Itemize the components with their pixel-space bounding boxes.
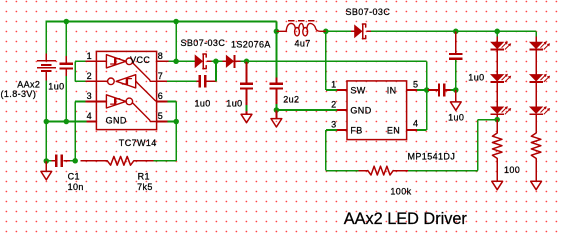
- svg-text:EN: EN: [387, 126, 400, 136]
- svg-text:2: 2: [331, 99, 336, 109]
- svg-text:8: 8: [158, 51, 163, 61]
- svg-text:(1.8-3V): (1.8-3V): [1, 89, 37, 99]
- svg-text:10n: 10n: [68, 182, 84, 192]
- svg-text:1u0: 1u0: [226, 98, 242, 108]
- svg-text:MP1541DJ: MP1541DJ: [408, 152, 456, 162]
- svg-text:SW: SW: [350, 85, 365, 95]
- svg-text:1u0: 1u0: [468, 72, 484, 82]
- svg-text:1u0: 1u0: [48, 82, 64, 92]
- svg-text:AAx2 LED Driver: AAx2 LED Driver: [344, 210, 468, 228]
- svg-text:FB: FB: [350, 126, 362, 136]
- svg-text:6: 6: [158, 91, 163, 101]
- svg-text:GND: GND: [106, 115, 127, 125]
- svg-text:7k5: 7k5: [137, 182, 153, 192]
- svg-text:1u0: 1u0: [448, 112, 464, 122]
- svg-text:IN: IN: [387, 85, 397, 95]
- svg-text:2u2: 2u2: [283, 94, 299, 104]
- svg-text:VCC: VCC: [130, 55, 150, 65]
- svg-text:SB07-03C: SB07-03C: [181, 38, 226, 48]
- svg-text:1u0: 1u0: [195, 98, 211, 108]
- svg-text:2: 2: [87, 71, 92, 81]
- svg-text:C1: C1: [68, 172, 80, 182]
- svg-text:4u7: 4u7: [295, 39, 311, 49]
- svg-text:1S2076A: 1S2076A: [231, 40, 271, 50]
- svg-text:TC7W14: TC7W14: [119, 138, 157, 148]
- svg-text:1: 1: [87, 51, 92, 61]
- svg-text:GND: GND: [350, 105, 371, 115]
- svg-text:1: 1: [331, 79, 336, 89]
- svg-text:4: 4: [87, 111, 92, 121]
- svg-text:R1: R1: [138, 172, 150, 182]
- svg-text:3: 3: [87, 91, 92, 101]
- svg-text:100k: 100k: [390, 187, 411, 197]
- svg-text:3: 3: [331, 119, 336, 129]
- svg-text:SB07-03C: SB07-03C: [346, 7, 391, 17]
- svg-text:5: 5: [158, 111, 163, 121]
- svg-text:7: 7: [158, 71, 163, 81]
- svg-text:5: 5: [413, 79, 418, 89]
- svg-text:4: 4: [413, 118, 418, 128]
- svg-text:100: 100: [504, 165, 520, 175]
